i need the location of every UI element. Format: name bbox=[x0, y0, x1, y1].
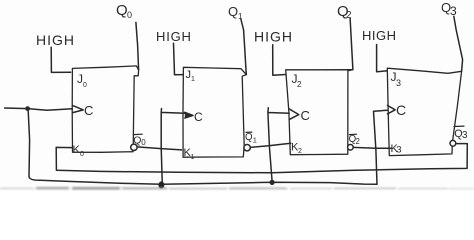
svg-text:1: 1 bbox=[253, 135, 257, 144]
wire clock input line bbox=[5, 108, 73, 110]
junction clock input node bbox=[25, 106, 30, 111]
output bubble Qbar3 bbox=[450, 140, 456, 146]
svg-text:2: 2 bbox=[297, 80, 302, 89]
flip-flop U4 (FF3) body bbox=[387, 68, 461, 155]
svg-text:Q: Q bbox=[245, 132, 253, 143]
flip-flop U3 (FF2) body bbox=[286, 70, 353, 155]
junction clock bus at FF2 tap bbox=[270, 180, 275, 185]
overline of Qbar2 label bbox=[349, 133, 356, 135]
svg-text:0: 0 bbox=[80, 151, 84, 158]
clock edge arrow FF3 bbox=[387, 105, 395, 114]
svg-text:3: 3 bbox=[450, 4, 457, 18]
svg-text:Q: Q bbox=[133, 134, 141, 146]
svg-text:2: 2 bbox=[346, 10, 352, 21]
output bubble Qbar2 bbox=[348, 145, 354, 151]
output bubble Qbar0 bbox=[131, 144, 137, 150]
wire Qbar2 to K3 bbox=[353, 146, 391, 149]
svg-text:HIGH: HIGH bbox=[156, 29, 192, 44]
overline of Qbar0 label bbox=[134, 133, 143, 135]
wire HIGH net to J1 bbox=[174, 43, 184, 75]
svg-text:C: C bbox=[84, 103, 93, 118]
scan artifact: bottom gray band bbox=[0, 187, 474, 190]
wire Q2 output up to label bbox=[350, 18, 353, 69]
wire HIGH net to J0 bbox=[51, 47, 70, 72]
clock edge arrow FF0 bbox=[73, 106, 84, 113]
svg-text:HIGH: HIGH bbox=[362, 28, 397, 43]
wire clock tap up to FF3 C bbox=[374, 110, 388, 184]
svg-text:Q: Q bbox=[228, 4, 238, 19]
wire HIGH net to J2 bbox=[273, 45, 286, 75]
svg-text:0: 0 bbox=[141, 138, 146, 147]
svg-text:C: C bbox=[194, 110, 203, 124]
flip-flop U1 (FF0) body bbox=[72, 66, 138, 152]
svg-text:2: 2 bbox=[356, 137, 360, 146]
svg-text:1: 1 bbox=[191, 76, 195, 83]
junction clock bus at FF1 tap bbox=[158, 181, 164, 188]
overline of Qbar3 label bbox=[454, 125, 464, 127]
overline of Qbar1 label bbox=[246, 131, 252, 133]
clock edge arrow FF1 bbox=[185, 112, 193, 118]
wire clock tap up to FF1 C bbox=[161, 109, 184, 185]
wire clock drop to bottom bus bbox=[28, 111, 40, 181]
wire HIGH net to J3 bbox=[377, 45, 388, 72]
output bubble Qbar1 bbox=[244, 145, 250, 151]
svg-text:1: 1 bbox=[238, 12, 243, 21]
svg-text:Q: Q bbox=[116, 2, 128, 19]
wire Q3 output up to label bbox=[454, 16, 463, 71]
wire clock tap up to FF2 C bbox=[268, 108, 289, 183]
svg-text:C: C bbox=[301, 108, 310, 123]
flip-flop U2 (FF1) body bbox=[183, 67, 246, 157]
svg-text:2: 2 bbox=[298, 148, 302, 155]
clock edge arrow FF2 bbox=[289, 109, 299, 120]
wire Qbar3 feedback to K0 bbox=[56, 144, 467, 173]
svg-text:HIGH: HIGH bbox=[36, 32, 75, 48]
svg-text:0: 0 bbox=[127, 10, 132, 20]
svg-text:3: 3 bbox=[462, 130, 468, 141]
wire Qbar1 to K2 bbox=[250, 143, 290, 147]
svg-text:3: 3 bbox=[396, 78, 401, 88]
svg-text:3: 3 bbox=[396, 145, 401, 156]
svg-text:C: C bbox=[396, 102, 406, 118]
svg-text:0: 0 bbox=[83, 82, 87, 89]
svg-text:1: 1 bbox=[191, 154, 195, 161]
svg-text:HIGH: HIGH bbox=[254, 29, 293, 45]
wire clock bottom bus bbox=[40, 180, 377, 184]
wire Q0 output up to label bbox=[136, 22, 139, 70]
wire Qbar0 to K1 bbox=[137, 147, 181, 150]
wire Q1 output up to label bbox=[241, 19, 246, 74]
